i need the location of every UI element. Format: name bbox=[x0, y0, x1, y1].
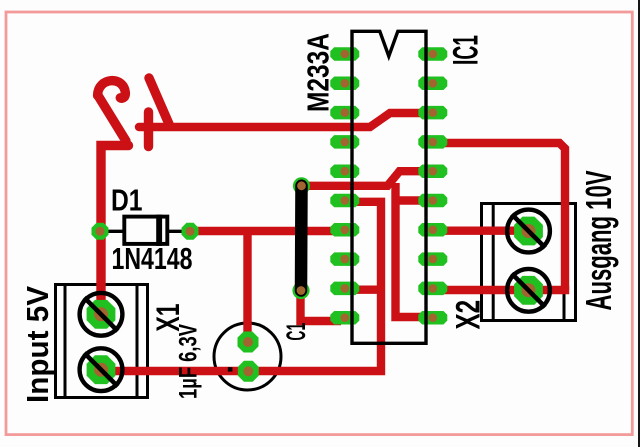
svg-text:Ausgang 10V: Ausgang 10V bbox=[578, 171, 619, 311]
svg-text:IC1: IC1 bbox=[446, 35, 486, 65]
svg-text:1µF 6,3V: 1µF 6,3V bbox=[175, 324, 203, 399]
svg-text:D1: D1 bbox=[111, 184, 143, 218]
svg-text:M233A: M233A bbox=[301, 33, 335, 112]
svg-text:C1: C1 bbox=[281, 323, 311, 341]
svg-text:X2: X2 bbox=[450, 300, 488, 330]
svg-text:1N4148: 1N4148 bbox=[112, 242, 193, 276]
svg-text:Input 5V: Input 5V bbox=[21, 285, 55, 403]
